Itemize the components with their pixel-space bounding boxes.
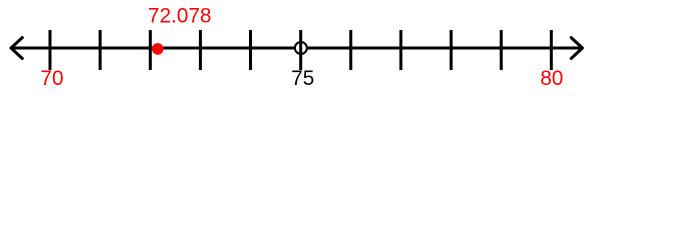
tick 71 bbox=[99, 30, 102, 70]
tick 77 bbox=[399, 30, 402, 70]
open circle at 75 bbox=[295, 42, 307, 54]
tick 75 bbox=[299, 30, 302, 70]
tick 80 bbox=[550, 30, 553, 70]
number line axis bbox=[11, 47, 582, 50]
svg-text:75: 75 bbox=[291, 67, 314, 90]
right arrowhead bbox=[571, 38, 582, 59]
tick 72 bbox=[149, 30, 152, 70]
tick 70 bbox=[49, 30, 52, 70]
tick 79 bbox=[500, 30, 503, 70]
svg-text:72.078: 72.078 bbox=[148, 5, 212, 28]
tick 78 bbox=[450, 30, 453, 70]
left arrowhead bbox=[11, 38, 22, 59]
tick 73 bbox=[199, 30, 202, 70]
tick 76 bbox=[349, 30, 352, 70]
red point at 72.078 bbox=[152, 43, 164, 55]
svg-text:70: 70 bbox=[40, 67, 63, 90]
svg-text:80: 80 bbox=[540, 67, 563, 90]
tick 74 bbox=[249, 30, 252, 70]
